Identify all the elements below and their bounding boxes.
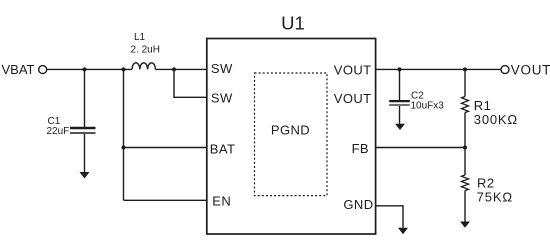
svg-text:SW: SW [211,90,233,105]
svg-text:2. 2uH: 2. 2uH [131,45,160,56]
svg-text:300KΩ: 300KΩ [474,112,518,127]
svg-text:VBAT: VBAT [2,62,35,77]
svg-text:FB: FB [352,141,369,156]
svg-text:22uF: 22uF [47,126,70,137]
svg-text:75KΩ: 75KΩ [477,189,513,204]
svg-text:VOUT: VOUT [334,62,372,77]
svg-text:GND: GND [343,197,373,212]
svg-text:R1: R1 [474,98,492,113]
svg-text:PGND: PGND [271,122,310,137]
svg-text:10uFx3: 10uFx3 [411,100,445,111]
svg-text:L1: L1 [134,32,146,43]
svg-text:VOUT: VOUT [511,63,550,78]
svg-text:U1: U1 [281,13,305,34]
svg-text:VOUT: VOUT [334,91,372,106]
svg-text:SW: SW [211,61,233,76]
svg-text:EN: EN [212,194,231,209]
svg-text:BAT: BAT [210,141,236,156]
